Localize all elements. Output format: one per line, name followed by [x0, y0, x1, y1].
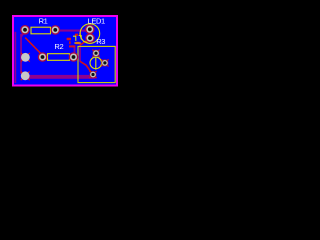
wire V2 (second vertical trace) — [20, 34, 22, 74]
LED1 pad 1 (anode) — [85, 25, 95, 35]
wire V4 below LED1 — [79, 44, 81, 62]
wire stub from R1 pad1 — [21, 32, 25, 37]
resistor R2 pad 1 — [38, 52, 48, 62]
background — [0, 0, 129, 100]
LED1 flat chord — [83, 41, 88, 42]
resistor R1 pad 1 — [20, 25, 30, 35]
resistor R1 body — [31, 27, 51, 34]
svg-text:R2: R2 — [54, 42, 63, 51]
resistor R1 pad 2 — [51, 25, 61, 35]
board outline (PCB edge, blue board with magenta border) — [14, 17, 116, 85]
wire diagonal R1 pad1 to R2 pad1 — [25, 38, 42, 55]
resistor R2 body — [48, 54, 70, 61]
wire V1 (left vertical trace) — [15, 32, 17, 83]
transistor Q1 vertical line — [95, 56, 97, 69]
pad red rect C — [75, 34, 78, 36]
pad red rect B — [75, 42, 80, 45]
pad red dash D — [79, 33, 81, 35]
transistor Q1 pad A — [92, 50, 99, 57]
resistor R3 silkscreen fragments — [73, 36, 82, 44]
wire diagonal LED1 pad2 to V4 — [80, 38, 90, 45]
transistor Q1 circle — [90, 57, 102, 69]
transistor Q1 pad B — [101, 59, 108, 66]
svg-text:LED1: LED1 — [88, 16, 106, 25]
wire R1 pad2 to LED1 pad1 — [55, 30, 87, 32]
transistor Q1 pad C — [89, 71, 96, 78]
svg-text:R1: R1 — [39, 16, 48, 25]
connector pad 1 (gray with thermal ticks) — [21, 53, 30, 62]
wire red horizontal above R2 pad2 — [69, 45, 75, 47]
wire red tick below rect A — [69, 41, 71, 44]
svg-text:R3: R3 — [96, 37, 105, 46]
LED1 silkscreen circle — [80, 24, 100, 44]
wire V3 above R2 pad2 — [74, 47, 76, 57]
LED1 pad 2 (cathode) — [85, 33, 95, 43]
connector pad 2 (gray with thermal ticks) — [21, 71, 30, 80]
wire bottom horizontal trace — [25, 75, 96, 79]
resistor R2 pad 2 — [69, 52, 79, 62]
wire V4 to Q1 pad C diagonal — [80, 61, 93, 74]
transistor Q1 outline box — [78, 46, 115, 82]
pad red rect A — [67, 38, 71, 40]
